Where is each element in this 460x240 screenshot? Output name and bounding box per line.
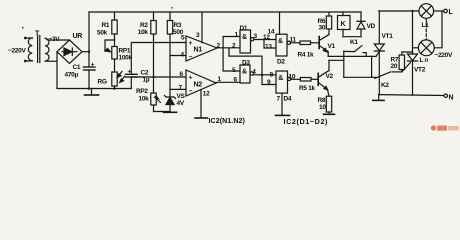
collector wire to R6: [328, 29, 330, 35]
thyristor VT1 gate wire: [376, 52, 379, 57]
svg-text:+: +: [189, 40, 193, 47]
wire RP1 to RG: [114, 59, 116, 72]
svg-text:+: +: [91, 61, 95, 68]
wire Ln left: [413, 47, 419, 49]
svg-text:~3V: ~3V: [49, 36, 61, 43]
svg-text:+: +: [128, 69, 132, 76]
svg-text:R1: R1: [102, 22, 110, 29]
wire N2 plus input: [131, 76, 186, 78]
resistor R2: [153, 12, 155, 21]
wire Ln right and riser: [434, 11, 442, 48]
relay contact K2: [344, 76, 376, 78]
wire secondary top to bridge: [46, 38, 70, 40]
svg-text:R2: R2: [140, 22, 148, 29]
speck: [22, 27, 24, 29]
svg-text:V2: V2: [326, 73, 334, 80]
wire N1 output to D1 pin2: [217, 47, 240, 49]
svg-text:C1: C1: [73, 64, 81, 71]
svg-text:~220V: ~220V: [8, 48, 26, 55]
svg-text:13: 13: [265, 43, 272, 50]
V2 collector wire up: [328, 60, 330, 70]
bridge diode inside: [62, 51, 77, 53]
svg-text:V1: V1: [328, 43, 336, 50]
capacitor C2: [131, 43, 186, 75]
NAND gate D1: [240, 30, 251, 53]
svg-text:+: +: [189, 75, 193, 82]
resistor R4: [291, 42, 301, 44]
svg-text:RG: RG: [98, 79, 107, 86]
wire V+ column up to top rail: [88, 12, 90, 52]
emitter wire down: [327, 52, 329, 57]
resistor R7: [401, 70, 403, 72]
terminal N: [444, 94, 447, 97]
svg-text:~220V: ~220V: [435, 52, 453, 59]
lamp column: [412, 11, 414, 54]
svg-text:470µ: 470µ: [65, 72, 79, 79]
transistor V1: [318, 37, 320, 49]
svg-text:IC2(D1~D2): IC2(D1~D2): [284, 117, 329, 126]
svg-text:L1: L1: [422, 22, 430, 29]
transformer T core: [37, 36, 39, 63]
wire V1 emitter to VT1 gate: [328, 55, 376, 57]
bottom right rail to N: [379, 94, 444, 97]
wire K bottom column: [342, 30, 344, 37]
svg-text:N1: N1: [194, 47, 203, 54]
wire K2 to R7/VT2 gate node: [392, 71, 402, 73]
wire N1 output loop down: [229, 48, 262, 75]
NAND gate D4: [276, 71, 288, 93]
svg-text:K1: K1: [350, 39, 358, 46]
svg-text:R5 1k: R5 1k: [299, 85, 316, 92]
svg-text:&: &: [278, 75, 283, 82]
wire K/VD node: [343, 36, 361, 38]
transformer T primary winding: [28, 38, 32, 61]
svg-text:VT2: VT2: [414, 67, 426, 74]
svg-text:UR: UR: [73, 33, 83, 40]
svg-text:RP1: RP1: [119, 48, 131, 55]
svg-text:K: K: [341, 21, 346, 28]
wire to N1 inverting input: [170, 55, 186, 57]
svg-text:10k: 10k: [138, 29, 149, 36]
pin 14 power wire: [279, 12, 281, 34]
wire R2 down to node: [153, 34, 155, 77]
ground rail left: [57, 88, 131, 90]
resistor R5: [291, 78, 300, 80]
wire to D4 pin8: [262, 74, 276, 76]
resistor R3: [169, 12, 171, 21]
op-amp N1: [186, 36, 217, 61]
svg-text:100k: 100k: [119, 55, 133, 62]
svg-text:R3: R3: [174, 22, 182, 29]
terminal lower ~220V: [24, 60, 27, 63]
wire L1 to terminal: [434, 10, 444, 12]
zener VS: [169, 89, 171, 97]
svg-text:C2: C2: [141, 70, 149, 77]
wire D1 pin1 / D3 pin5 tie: [223, 37, 240, 72]
svg-text:20: 20: [391, 63, 398, 70]
watermark: [431, 125, 459, 130]
svg-text:VS: VS: [177, 93, 186, 100]
svg-text:&: &: [242, 69, 247, 76]
svg-text:D1: D1: [240, 25, 248, 32]
terminal L: [444, 9, 448, 13]
wire to N2 inverting input: [170, 88, 186, 90]
svg-text:K2: K2: [381, 82, 389, 89]
svg-text:IC2(N1.N2): IC2(N1.N2): [209, 118, 245, 125]
pin 12 ground stem: [200, 90, 202, 118]
relay coil K: [342, 12, 344, 16]
svg-text:10: 10: [319, 104, 326, 111]
relay contact K1: [343, 51, 345, 77]
svg-text:10k: 10k: [139, 96, 150, 103]
wire bridge plus to V+ column: [82, 51, 89, 53]
svg-text:RP2: RP2: [136, 88, 148, 95]
wire: [27, 60, 33, 62]
ground under N2: [195, 117, 208, 119]
photoresistor RG: [112, 72, 117, 86]
potentiometer RP2: [153, 77, 155, 93]
wire K1 right terminal: [363, 53, 366, 57]
wire to D4 pin9: [262, 75, 276, 85]
svg-text:50k: 50k: [97, 30, 108, 37]
wire N2 out to D3 pin6: [216, 81, 240, 83]
svg-text:N: N: [449, 95, 454, 102]
wire V2 collector to K1: [329, 59, 344, 61]
bridge rectifier UR diamond: [57, 40, 82, 63]
resistor R8: [328, 90, 329, 96]
wire bridge minus down to ground rail: [56, 52, 58, 89]
svg-text:D2: D2: [277, 59, 285, 66]
pin 13 tie: [264, 40, 276, 49]
thyristor VT1: [378, 11, 380, 44]
NAND gate D3: [240, 65, 250, 83]
resistor R6: [328, 12, 330, 16]
wire D1 out to D2 pin12: [254, 39, 276, 41]
svg-text:VD: VD: [367, 23, 376, 30]
svg-text:4V: 4V: [177, 100, 185, 107]
ground under R8: [324, 113, 335, 115]
pin 7 ground stem: [281, 93, 283, 115]
op-amp N2: [186, 70, 216, 96]
lamp Ln: [418, 40, 434, 56]
svg-text:&: &: [278, 38, 283, 45]
potentiometer RP1: [105, 40, 115, 51]
node: [261, 74, 264, 77]
svg-text:R4 1k: R4 1k: [298, 52, 315, 59]
light arrows at RG: [118, 72, 123, 78]
svg-text:VT1: VT1: [382, 33, 394, 40]
wire: [27, 37, 33, 39]
NAND gate D2: [276, 34, 287, 56]
svg-text:12: 12: [203, 91, 210, 98]
node V+: [88, 51, 90, 53]
lamp feed wire top: [379, 10, 419, 12]
svg-text:L: L: [420, 57, 424, 64]
transformer T secondary winding: [45, 38, 49, 61]
thyristor VT2: [408, 54, 418, 61]
svg-text:30: 30: [319, 25, 326, 32]
pin 3 power wire: [201, 12, 203, 43]
wire RP2 bottom: [154, 105, 171, 112]
wire D3 out to D4 node: [253, 74, 262, 76]
wire R3 column down: [169, 34, 171, 89]
ground: [91, 89, 93, 95]
capacitor C1: [88, 52, 90, 67]
terminal upper ~220V: [24, 37, 27, 40]
ground under VS: [164, 111, 177, 113]
svg-text:D4: D4: [284, 96, 292, 103]
svg-text:N2: N2: [194, 82, 203, 89]
dashed continuation: [425, 20, 427, 40]
wire R1 to RP1: [114, 34, 116, 47]
lamp L1: [419, 4, 434, 19]
resistor R1: [114, 12, 116, 20]
transistor V2: [317, 73, 319, 85]
svg-text:D3: D3: [242, 59, 250, 66]
ground at rail: [378, 95, 380, 100]
ground under D4: [276, 114, 290, 116]
top rail: [89, 11, 361, 13]
wire secondary bottom: [46, 60, 57, 62]
diode VD: [360, 12, 362, 21]
svg-text:&: &: [242, 34, 247, 41]
thyristor VT2 gate wire: [402, 63, 411, 72]
